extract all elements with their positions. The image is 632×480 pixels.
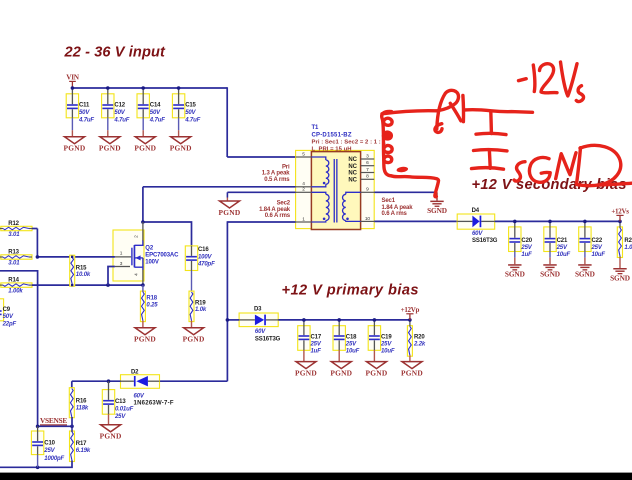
svg-text:VSENSE: VSENSE	[40, 416, 67, 425]
ground PGND under C18	[330, 350, 352, 377]
junction node R21/rail	[618, 220, 622, 224]
svg-text:470pF: 470pF	[197, 262, 215, 268]
wire left edge feedback	[0, 270, 38, 272]
svg-text:0.01uF: 0.01uF	[115, 406, 134, 412]
svg-text:NC: NC	[348, 157, 357, 163]
svg-text:C11: C11	[79, 102, 90, 108]
junction node C19/rail	[373, 318, 377, 322]
T1 pin 3	[361, 153, 375, 159]
svg-text:C17: C17	[311, 335, 322, 341]
wire node to D3	[227, 319, 239, 321]
wire R12 to gate node	[32, 229, 37, 258]
junction node C11/bus	[71, 86, 75, 90]
ground SGND under C20	[505, 258, 525, 279]
svg-text:118k: 118k	[76, 405, 89, 411]
svg-text:0.25: 0.25	[146, 303, 158, 309]
svg-text:1.0k: 1.0k	[624, 245, 632, 251]
wire D4 to +12Vs rail	[495, 220, 620, 222]
hand-drawn bottom squiggle to SGND	[391, 176, 438, 197]
T1 pin 7	[361, 167, 375, 173]
svg-text:Pri : Sec1 : Sec2 = 2 : 1 : 1: Pri : Sec1 : Sec2 = 2 : 1 : 1	[312, 140, 387, 146]
wire node vertical to D3/D2	[226, 221, 228, 381]
junction node D3 branch	[226, 318, 230, 322]
resistor R21 1.0k	[617, 221, 632, 257]
svg-text:SGND: SGND	[610, 274, 630, 283]
capacitor C12 50V 4.7uF	[102, 88, 130, 130]
T1 pin 9	[361, 187, 375, 193]
ground PGND under C19	[366, 350, 388, 377]
svg-text:R18: R18	[146, 296, 157, 302]
capacitor C15 50V 4.7uF	[172, 88, 200, 130]
svg-text:2.2k: 2.2k	[413, 342, 426, 348]
resistor R20 2.2k	[407, 320, 425, 356]
hand-drawn strikethrough	[600, 183, 632, 185]
svg-text:50V: 50V	[3, 314, 14, 320]
svg-text:PGND: PGND	[100, 432, 122, 441]
wire drain node to C16	[143, 222, 192, 247]
resistor R17 6.19k	[70, 426, 91, 461]
transistor Q2 EPC7003AC	[113, 222, 179, 285]
handwritten SGND annotation	[514, 145, 621, 185]
svg-text:C18: C18	[346, 335, 357, 341]
svg-text:4.7uF: 4.7uF	[149, 117, 165, 123]
ground SGND under C22	[575, 258, 595, 279]
junction node C20/rail	[513, 220, 517, 224]
T1 pin 10	[361, 216, 375, 222]
capacitor C9 50V 22pF (edge cut)	[0, 299, 16, 328]
svg-text:10uF: 10uF	[557, 252, 571, 258]
svg-text:EPC7003AC: EPC7003AC	[145, 253, 179, 259]
svg-text:R12: R12	[8, 221, 19, 227]
svg-text:0.6 A rms: 0.6 A rms	[265, 213, 291, 219]
wire C16 to R19	[191, 271, 193, 293]
wire node to D2	[160, 380, 228, 382]
resistor R18 0.25	[140, 285, 158, 322]
ground PGND under C11	[64, 130, 86, 152]
svg-text:+12Vp: +12Vp	[401, 306, 420, 314]
junction node R20/rail	[408, 318, 412, 322]
svg-text:3.01: 3.01	[8, 232, 20, 238]
resistor R13 3.01	[0, 250, 32, 267]
svg-text:PGND: PGND	[330, 369, 352, 378]
svg-text:C22: C22	[592, 238, 603, 244]
junction Q2 source node	[141, 283, 145, 287]
svg-text:10uF: 10uF	[346, 349, 360, 355]
diode D2 1N6263W-7-F	[121, 369, 174, 406]
ground PGND under R18	[134, 321, 156, 344]
svg-text:PGND: PGND	[219, 208, 241, 217]
svg-text:C10: C10	[44, 441, 55, 447]
svg-text:SGND: SGND	[540, 270, 560, 279]
T1 pin 8	[361, 174, 375, 180]
svg-text:R15: R15	[76, 265, 87, 271]
resistor R12 3.01	[0, 221, 32, 238]
svg-text:4.7uF: 4.7uF	[184, 117, 200, 123]
svg-text:100V: 100V	[198, 254, 213, 260]
svg-text:D3: D3	[254, 307, 262, 313]
hand-drawn winding sketch	[382, 112, 392, 176]
junction node C12/bus	[106, 86, 110, 90]
svg-text:1000pF: 1000pF	[44, 456, 64, 462]
svg-text:T1: T1	[312, 125, 320, 131]
svg-text:PGND: PGND	[134, 144, 156, 153]
T1 designator and type	[312, 125, 352, 138]
capacitor C10 25V 1000pF	[31, 426, 64, 467]
svg-text:60V: 60V	[134, 394, 145, 400]
T1 NC pin label 4	[348, 178, 357, 184]
svg-text:4: 4	[134, 273, 140, 276]
svg-text:3.01: 3.01	[8, 261, 20, 267]
hand-drawn capacitor sketch	[472, 112, 508, 170]
junction node C14/bus	[141, 86, 145, 90]
svg-text:C14: C14	[150, 102, 161, 108]
junction node C15/bus	[177, 86, 181, 90]
svg-text:50V: 50V	[79, 110, 90, 116]
svg-text:SS16T3G: SS16T3G	[472, 238, 498, 244]
capacitor C17 25V 1uF	[298, 320, 322, 355]
T1 pin 5	[296, 151, 312, 157]
junction gate node	[36, 255, 40, 259]
wire source row R14 to Q2	[32, 284, 143, 286]
svg-text:PGND: PGND	[401, 369, 423, 378]
wire pin4 node vertical	[142, 187, 144, 222]
wire bus vertical to T1 pin 5	[226, 87, 228, 157]
ground PGND under C13	[100, 414, 122, 441]
title: +12 V secondary bias	[472, 177, 627, 193]
svg-text:C19: C19	[381, 335, 392, 341]
svg-text:50V: 50V	[114, 110, 125, 116]
net label VSENSE	[40, 416, 67, 425]
svg-text:22pF: 22pF	[2, 321, 17, 327]
junction node C17/rail	[302, 318, 306, 322]
wire gate node to Q2 pin1	[37, 256, 115, 258]
svg-text:C12: C12	[114, 102, 125, 108]
junction Q2 pin3 node	[106, 283, 110, 287]
svg-text:1.84 A peak: 1.84 A peak	[259, 207, 291, 213]
power port VIN	[66, 73, 80, 88]
handwritten -12Vs annotation	[519, 62, 584, 102]
svg-text:25V: 25V	[43, 448, 55, 454]
ground PGND under C15	[170, 130, 192, 152]
svg-text:25V: 25V	[310, 342, 322, 348]
svg-text:C20: C20	[521, 238, 532, 244]
svg-text:2: 2	[134, 235, 140, 238]
svg-text:4.7uF: 4.7uF	[113, 117, 129, 123]
junction node C22/rail	[583, 220, 587, 224]
svg-text:PGND: PGND	[64, 144, 86, 153]
wire feedback vertical	[37, 270, 39, 426]
wire VSENSE	[38, 425, 72, 427]
svg-text:SGND: SGND	[505, 270, 525, 279]
svg-text:SS16T3G: SS16T3G	[255, 337, 281, 343]
diode D4 SS16T3G	[457, 208, 498, 244]
svg-text:25V: 25V	[520, 245, 532, 251]
wire D2 to R16	[72, 380, 121, 382]
svg-text:C13: C13	[115, 399, 126, 405]
T1 NC pin label 3	[348, 171, 357, 177]
T1 pin 2	[296, 187, 312, 193]
svg-text:D4: D4	[472, 208, 480, 214]
svg-text:PGND: PGND	[99, 144, 121, 153]
ground SGND under C21	[540, 258, 560, 279]
svg-text:Sec2: Sec2	[277, 200, 291, 206]
wire T1 pin2 to PGND	[227, 191, 295, 193]
wire R16 to VSENSE	[71, 417, 73, 426]
ground PGND under C12	[99, 130, 121, 152]
svg-text:NC: NC	[348, 178, 357, 184]
svg-text:1uF: 1uF	[521, 252, 532, 258]
svg-text:4.7uF: 4.7uF	[78, 117, 94, 123]
T1 primary current note	[262, 164, 291, 183]
T1 pin 6	[361, 160, 375, 166]
wire into T1 pin 5	[227, 156, 296, 158]
capacitor C21 25V 10uF	[544, 221, 571, 258]
svg-text:PGND: PGND	[366, 369, 388, 378]
capacitor C19 25V 10uF	[368, 320, 395, 355]
junction node C21/rail	[548, 220, 552, 224]
svg-text:0.5 A rms: 0.5 A rms	[264, 177, 290, 183]
svg-text:10uF: 10uF	[381, 349, 395, 355]
title: 22 - 36 V input	[64, 44, 166, 60]
svg-text:50V: 50V	[185, 110, 196, 116]
ground PGND under R20	[401, 355, 423, 377]
svg-text:C21: C21	[557, 238, 568, 244]
bottom letterbox bar	[0, 473, 632, 480]
wire R17 to bottom rail	[0, 461, 72, 468]
hand-drawn diode sketch	[435, 90, 464, 132]
svg-text:6.19k: 6.19k	[76, 448, 91, 454]
wire D2 node down to R16	[71, 381, 73, 388]
svg-text:SGND: SGND	[575, 270, 595, 279]
diode D3 SS16T3G	[239, 307, 281, 343]
T1 pin 4	[296, 181, 312, 187]
power port +12Vp	[401, 306, 420, 320]
svg-text:1N6263W-7-F: 1N6263W-7-F	[134, 400, 174, 406]
svg-text:PGND: PGND	[295, 369, 317, 378]
svg-text:1.84 A peak: 1.84 A peak	[382, 205, 414, 211]
svg-text:L_PRI = 15 uH: L_PRI = 15 uH	[312, 146, 352, 152]
T1 pin 1	[296, 216, 312, 222]
ground SGND at T1 pin9	[427, 192, 447, 215]
svg-text:R16: R16	[76, 398, 87, 404]
svg-text:D2: D2	[131, 369, 139, 375]
svg-text:1uF: 1uF	[311, 349, 322, 355]
capacitor C13 0.01uF 25V	[102, 381, 133, 420]
svg-text:10: 10	[365, 216, 371, 222]
svg-text:1.00k: 1.00k	[8, 289, 23, 295]
svg-text:25V: 25V	[591, 245, 603, 251]
junction VSENSE right	[70, 425, 74, 429]
svg-text:R13: R13	[8, 250, 19, 256]
svg-text:R14: R14	[8, 278, 19, 284]
svg-text:50V: 50V	[150, 110, 161, 116]
wire T1 pin9 to SGND	[374, 191, 437, 193]
wire T1 pin4 to drain node	[143, 186, 296, 188]
svg-text:VIN: VIN	[66, 73, 80, 82]
svg-text:Q2: Q2	[145, 246, 154, 252]
svg-text:PGND: PGND	[134, 335, 156, 344]
svg-text:+12Vs: +12Vs	[611, 208, 629, 216]
svg-text:Sec1: Sec1	[382, 198, 396, 204]
capacitor C11 50V 4.7uF	[66, 88, 94, 130]
svg-text:25V: 25V	[380, 342, 392, 348]
capacitor C18 25V 10uF	[333, 320, 360, 355]
svg-text:+12 V primary bias: +12 V primary bias	[282, 282, 420, 298]
svg-text:25V: 25V	[345, 342, 357, 348]
svg-text:R21: R21	[624, 238, 632, 244]
resistor R14 1.00k	[0, 278, 32, 295]
svg-text:Pri: Pri	[282, 164, 290, 170]
wire D3 to +12Vp rail	[278, 319, 410, 321]
svg-text:25V: 25V	[114, 414, 126, 420]
svg-text:NC: NC	[348, 171, 357, 177]
junction VSENSE left	[36, 425, 40, 429]
svg-text:C16: C16	[198, 247, 209, 253]
junction C13 tap	[107, 379, 111, 383]
junction bottom rail	[36, 466, 40, 470]
hand-drawn tap dot	[396, 166, 408, 173]
T1 sec2 current note	[259, 200, 291, 219]
capacitor C14 50V 4.7uF	[137, 88, 165, 130]
resistor R16 118k	[69, 388, 89, 418]
capacitor C20 25V 1uF	[509, 221, 533, 258]
svg-text:NC: NC	[348, 164, 357, 170]
svg-text:25V: 25V	[556, 245, 568, 251]
capacitor C16 100V 470pF	[185, 246, 215, 271]
wire T1 pin1 to vertical	[227, 221, 295, 223]
junction node C18/rail	[337, 318, 341, 322]
T1 NC pin label 2	[348, 164, 357, 170]
resistor R19 1.0k	[189, 291, 207, 322]
T1 ratio note	[312, 140, 387, 153]
wire Q2 pin3 branch	[108, 267, 115, 286]
svg-text:60V: 60V	[472, 231, 483, 237]
transformer T1 body	[296, 150, 375, 229]
wire T1 pin10 to D4	[374, 220, 457, 222]
T1 sec1 current note	[382, 198, 414, 217]
svg-text:CP-D1551-BZ: CP-D1551-BZ	[312, 132, 352, 138]
title: +12 V primary bias	[282, 282, 420, 298]
svg-text:22 - 36 V input: 22 - 36 V input	[64, 44, 166, 60]
wire VIN bus	[72, 87, 227, 89]
svg-text:1.3 A peak: 1.3 A peak	[262, 171, 291, 177]
svg-text:0.6 A rms: 0.6 A rms	[382, 211, 408, 217]
ground PGND under R19	[183, 321, 205, 344]
svg-text:PGND: PGND	[183, 335, 205, 344]
T1 NC pin label 1	[348, 157, 357, 163]
hand-drawn winding dot	[384, 132, 392, 139]
resistor R15 10.0k	[70, 255, 91, 286]
svg-text:R20: R20	[414, 335, 425, 341]
svg-text:SGND: SGND	[427, 206, 447, 215]
svg-text:1.0k: 1.0k	[195, 307, 207, 313]
svg-text:C15: C15	[185, 102, 196, 108]
svg-text:60V: 60V	[255, 329, 266, 335]
svg-text:10uF: 10uF	[592, 252, 606, 258]
svg-text:C9: C9	[3, 307, 11, 313]
svg-text:R19: R19	[195, 300, 206, 306]
hand-drawn top wire	[382, 110, 533, 114]
svg-text:10.0k: 10.0k	[76, 272, 91, 278]
power port +12Vs	[611, 208, 629, 222]
svg-text:PGND: PGND	[170, 144, 192, 153]
ground PGND at T1 pin2	[219, 192, 241, 217]
junction drain node	[141, 220, 145, 224]
svg-text:100V: 100V	[145, 260, 159, 266]
capacitor C22 25V 10uF	[579, 221, 606, 258]
ground PGND under C17	[295, 350, 317, 377]
svg-text:R17: R17	[76, 441, 87, 447]
ground PGND under C14	[134, 130, 156, 152]
ground SGND under R21	[610, 258, 630, 283]
